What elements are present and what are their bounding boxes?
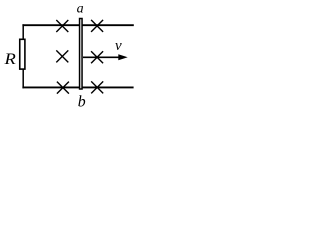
rod ab (double-line slider) <box>80 19 83 90</box>
field cross bottom-left <box>57 82 69 94</box>
wire: bottom rail <box>22 86 133 88</box>
svg-text:R: R <box>3 50 16 68</box>
wire: top rail <box>22 24 133 26</box>
svg-text:b: b <box>78 94 86 111</box>
wire: left vertical segment above resistor <box>22 24 24 39</box>
svg-text:a: a <box>77 2 84 17</box>
velocity arrowhead <box>118 54 127 60</box>
field cross middle-left <box>56 50 68 62</box>
field cross middle-right <box>91 51 103 63</box>
svg-text:v: v <box>115 38 122 54</box>
field cross bottom-right <box>91 81 103 93</box>
field cross top-right <box>91 20 103 32</box>
velocity arrow shaft <box>83 56 120 58</box>
field cross top-left <box>56 20 68 32</box>
wire: left vertical segment below resistor <box>22 69 24 88</box>
resistor R (rectangle) <box>20 39 25 69</box>
